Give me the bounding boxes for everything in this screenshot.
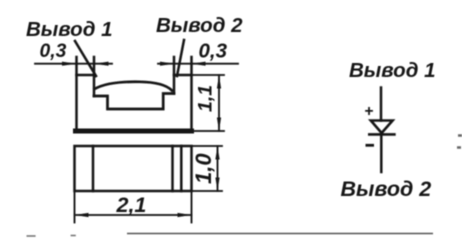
- svg-text:Вывод 1: Вывод 1: [349, 59, 435, 82]
- svg-text:1,1: 1,1: [195, 85, 217, 112]
- svg-text:2,1: 2,1: [116, 193, 147, 217]
- svg-text:Вывод 1: Вывод 1: [26, 18, 112, 41]
- svg-text:+: +: [365, 103, 374, 120]
- svg-text:Вывод 2: Вывод 2: [156, 14, 243, 37]
- svg-text:0,3: 0,3: [40, 41, 67, 62]
- svg-text:1,0: 1,0: [191, 153, 216, 184]
- svg-text:Вывод 2: Вывод 2: [341, 177, 432, 201]
- svg-text:0,3: 0,3: [199, 40, 228, 63]
